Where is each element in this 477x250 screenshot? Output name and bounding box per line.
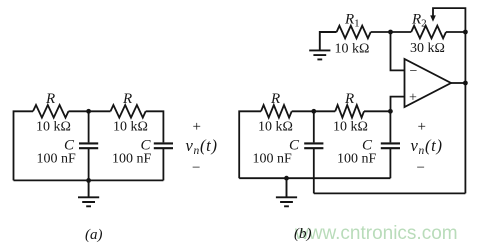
capacitor C (second in b)	[381, 143, 400, 148]
wiper arrowhead of R2	[430, 15, 436, 21]
svg-text:−: −	[417, 160, 425, 176]
svg-text:10 kΩ: 10 kΩ	[258, 120, 293, 135]
svg-text:+: +	[409, 91, 417, 106]
node: junction of R,R,C1 in b	[311, 109, 316, 114]
wire: right edge below capacitor in a	[162, 148, 164, 180]
svg-text:100 nF: 100 nF	[37, 152, 77, 167]
wire: R1 to R2 lead	[371, 31, 412, 33]
capacitor C (first in b)	[304, 143, 323, 148]
wire: R2 right lead	[446, 31, 465, 33]
wire: potentiometer wiper loop over R2	[433, 8, 465, 32]
resistor R2 (potentiometer)	[411, 26, 446, 39]
svg-text:(a): (a)	[85, 227, 103, 243]
wire: C2 bottom lead in b	[389, 148, 391, 178]
node: junction of R,R,C in a	[86, 109, 91, 114]
wire: top rail between resistors in b	[292, 110, 336, 112]
svg-text:10 kΩ: 10 kΩ	[333, 120, 368, 135]
svg-text:R1: R1	[344, 12, 360, 30]
svg-text:www.cntronics.com: www.cntronics.com	[294, 223, 458, 244]
resistor R1	[337, 26, 371, 39]
node: bottom junction to ground in a	[86, 178, 91, 183]
wire: bottom rail of a	[14, 179, 164, 181]
wire: feedback right vertical from R2 node through output down to bottom loop	[464, 32, 466, 193]
svg-text:10 kΩ: 10 kΩ	[335, 42, 370, 57]
resistor R (second in a)	[111, 105, 146, 118]
svg-text:10 kΩ: 10 kΩ	[113, 120, 148, 135]
wire: (a) left side + top lead	[14, 111, 34, 180]
svg-text:R: R	[270, 91, 280, 107]
wire: bottom feedback loop to C1	[314, 192, 466, 194]
wire: capacitor C2 top lead in b	[389, 111, 391, 142]
wire: C1 bottom lead crossing ground rail down to feedback loop in b	[313, 148, 315, 193]
ground (R1)	[309, 32, 336, 59]
wire: op-amp output	[451, 82, 465, 84]
node: R2 right terminal junction	[463, 30, 468, 35]
resistor R (first in b)	[261, 105, 292, 118]
node: R1-R2 junction	[388, 30, 393, 35]
node: output junction	[463, 81, 468, 86]
op-amp U1	[405, 59, 452, 107]
svg-text:−: −	[410, 64, 418, 79]
ground (a)	[78, 180, 99, 206]
wire: top rail right of second R in b	[364, 110, 390, 112]
svg-text:vn(t): vn(t)	[186, 136, 218, 157]
svg-text:100 nF: 100 nF	[253, 152, 293, 167]
wire: ground rail of b	[239, 177, 390, 179]
svg-text:+: +	[418, 119, 426, 135]
svg-text:R: R	[344, 91, 354, 107]
wire: first capacitor bottom lead in a	[88, 148, 90, 180]
svg-text:30 kΩ: 30 kΩ	[410, 41, 445, 56]
svg-text:vn(t): vn(t)	[411, 136, 443, 157]
wire: first capacitor top lead in a	[88, 111, 90, 142]
capacitor C (first in a)	[79, 143, 98, 148]
wire: capacitor C1 top lead in b	[313, 111, 315, 142]
wire: top right corner of a	[146, 111, 164, 142]
svg-text:100 nF: 100 nF	[337, 152, 377, 167]
resistor R (first in a)	[33, 105, 69, 118]
wire: inverting input to R1-R2 node	[391, 32, 405, 70]
wire: noninverting input to vn node	[391, 97, 405, 112]
svg-text:R2: R2	[411, 12, 427, 30]
node: vn node junction in b	[388, 109, 393, 114]
svg-text:10 kΩ: 10 kΩ	[36, 120, 71, 135]
wire: top rail between resistors in a	[69, 110, 111, 112]
svg-text:R: R	[45, 91, 55, 107]
ground (b ladder)	[276, 178, 297, 206]
svg-text:R: R	[122, 91, 132, 107]
svg-text:+: +	[193, 119, 201, 135]
resistor R (second in b)	[335, 105, 364, 118]
wire: (b) left side + top lead	[239, 111, 261, 178]
svg-text:100 nF: 100 nF	[112, 152, 152, 167]
node: ground junction in b	[284, 176, 289, 181]
capacitor C (second in a, on right edge)	[154, 143, 173, 148]
svg-text:−: −	[192, 160, 200, 176]
svg-text:(b): (b)	[294, 226, 312, 242]
